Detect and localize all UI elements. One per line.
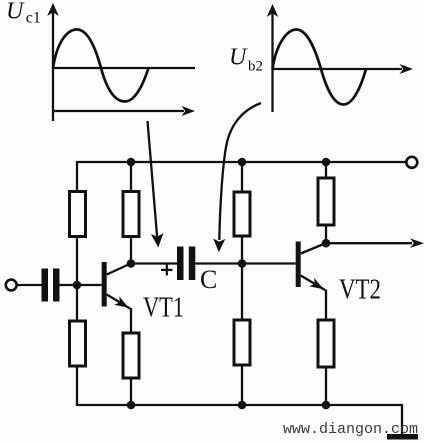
graph Uc1 bottom axis	[53, 106, 195, 116]
node VT2 collector	[322, 239, 331, 248]
wire input to capacitor	[17, 284, 42, 286]
svg-text:U: U	[229, 45, 248, 71]
wire capacitor to VT1 base	[60, 284, 102, 286]
annotation straight arrow from Uc1 graph to VT1 collector node	[148, 121, 164, 248]
svg-text:b2: b2	[248, 59, 263, 75]
node top rail / VT2 divider	[238, 158, 247, 167]
wire divider middle	[241, 236, 243, 321]
top supply rail	[77, 161, 406, 163]
transistor VT2	[296, 242, 325, 291]
wire left column upper	[76, 161, 78, 192]
annotation curved arrow from Ub2 graph to VT2 base wire	[213, 103, 261, 252]
bottom ground rail	[77, 405, 402, 434]
wire emitter resistor to ground rail	[325, 367, 327, 406]
graph Ub2 horizontal axis	[273, 64, 414, 74]
ground symbol	[387, 434, 418, 440]
transistor VT1	[102, 262, 130, 309]
node top rail / VT1 collector resistor	[127, 158, 136, 167]
output arrow wire	[326, 238, 424, 248]
input terminal	[6, 280, 17, 291]
wire emitter resistor to ground rail	[130, 378, 132, 406]
graph Ub2 vertical axis	[267, 4, 279, 112]
node top rail / VT2 collector resistor	[322, 158, 331, 167]
node VT1 collector	[127, 259, 136, 268]
resistor R7 (VT2 collector)	[318, 178, 334, 225]
node junction at bias divider / base	[73, 281, 82, 290]
wire VT2 collector column upper	[325, 161, 327, 179]
wire resistor to collector node	[130, 237, 132, 264]
graph Ub2 sine wave	[273, 30, 367, 105]
resistor R6 (lower bias, VT2)	[234, 320, 250, 365]
wire left column middle	[76, 237, 78, 322]
svg-text:U: U	[6, 0, 25, 25]
resistor R1 (upper bias, VT1)	[70, 192, 86, 237]
wire VT1 emitter down	[130, 308, 132, 334]
wire resistor to VT2 collector node	[325, 225, 327, 244]
graph Uc1 sine wave	[53, 30, 149, 102]
wire divider lower	[241, 365, 243, 406]
wire capacitor to VT2 base	[195, 262, 295, 264]
node bottom rail / VT2 emitter	[322, 401, 331, 410]
node bottom rail / VT2 divider	[238, 401, 247, 410]
node bottom rail / VT1 emitter	[127, 401, 136, 410]
svg-text:C: C	[200, 265, 217, 294]
wire collector node to capacitor C	[131, 262, 177, 264]
resistor R3 (VT1 collector)	[123, 192, 139, 237]
capacitor C (coupling)	[177, 247, 195, 281]
graph Uc1 zero line	[53, 67, 195, 69]
resistor R5 (upper bias, VT2)	[234, 192, 250, 236]
node VT2 base divider	[238, 259, 247, 268]
resistor R2 (lower bias, VT1)	[70, 321, 86, 366]
svg-text:VT1: VT1	[143, 293, 184, 324]
capacitor C1 (input coupling)	[42, 269, 60, 302]
resistor R4 (VT1 emitter)	[123, 333, 139, 378]
plus sign (capacitor polarity)	[161, 264, 173, 275]
wire VT2 divider column upper	[241, 161, 243, 193]
output terminal (top right)	[406, 157, 417, 168]
svg-text:www.diangon.com: www.diangon.com	[283, 421, 418, 438]
graph Uc1 vertical axis	[47, 3, 59, 121]
svg-text:VT2: VT2	[339, 275, 381, 306]
wire VT2 emitter down	[325, 290, 327, 321]
wire VT1 collector column upper	[130, 161, 132, 192]
wire left column lower	[76, 366, 78, 406]
resistor R8 (VT2 emitter)	[318, 320, 334, 367]
svg-text:c1: c1	[26, 10, 41, 27]
